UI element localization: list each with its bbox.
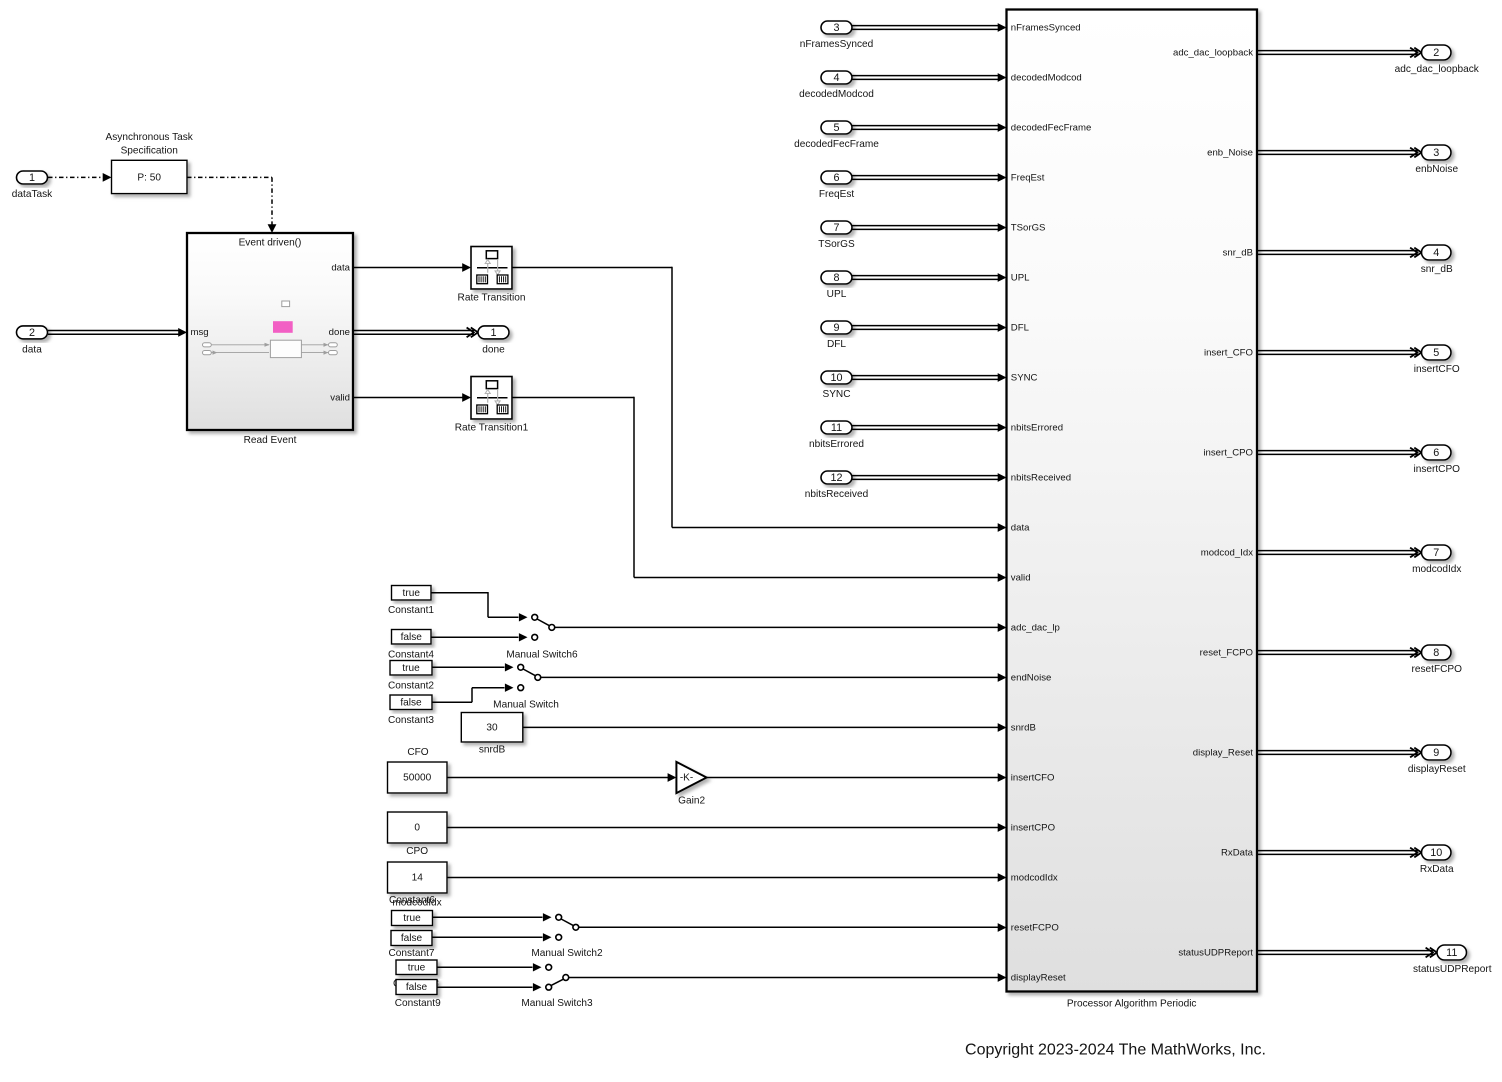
svg-text:done: done (482, 344, 505, 355)
svg-text:enb_Noise: enb_Noise (1207, 147, 1253, 158)
svg-text:3: 3 (1433, 147, 1439, 159)
svg-text:false: false (401, 632, 423, 643)
svg-text:Specification: Specification (121, 146, 178, 157)
svg-text:5: 5 (833, 122, 839, 134)
svg-text:snrdB: snrdB (479, 744, 506, 755)
svg-text:modcodIdx: modcodIdx (1412, 564, 1461, 575)
svg-text:statusUDPReport: statusUDPReport (1413, 964, 1492, 975)
svg-text:1: 1 (490, 327, 496, 339)
svg-text:9: 9 (1433, 747, 1439, 759)
svg-text:P: 50: P: 50 (137, 172, 161, 183)
svg-text:6: 6 (833, 172, 839, 184)
svg-text:4: 4 (833, 72, 839, 84)
svg-text:nFramesSynced: nFramesSynced (1011, 22, 1081, 33)
svg-text:7: 7 (833, 222, 839, 234)
svg-text:adc_dac_loopback: adc_dac_loopback (1173, 47, 1253, 58)
svg-text:insertCFO: insertCFO (1011, 772, 1055, 783)
svg-text:valid: valid (330, 392, 350, 403)
svg-text:nbitsReceived: nbitsReceived (805, 489, 868, 500)
svg-text:dataTask: dataTask (12, 189, 53, 200)
svg-text:Copyright 2023-2024 The MathWo: Copyright 2023-2024 The MathWorks, Inc. (965, 1042, 1266, 1059)
svg-text:Constant2: Constant2 (388, 680, 434, 691)
svg-text:modcod_Idx: modcod_Idx (1201, 547, 1253, 558)
svg-text:statusUDPReport: statusUDPReport (1178, 947, 1253, 958)
svg-text:Processor Algorithm Periodic: Processor Algorithm Periodic (1067, 998, 1197, 1009)
svg-text:data: data (331, 262, 350, 273)
svg-text:Event driven(): Event driven() (239, 237, 302, 248)
svg-text:DFL: DFL (827, 339, 846, 350)
svg-text:Constant4: Constant4 (388, 650, 434, 661)
svg-text:insertCPO: insertCPO (1413, 464, 1460, 475)
svg-text:insert_CFO: insert_CFO (1204, 347, 1253, 358)
svg-text:nbitsErrored: nbitsErrored (809, 439, 864, 450)
svg-text:Constant7: Constant7 (388, 948, 434, 959)
svg-text:done: done (329, 327, 350, 338)
svg-text:Constant1: Constant1 (388, 605, 434, 616)
svg-text:5: 5 (1433, 347, 1439, 359)
svg-text:10: 10 (830, 372, 842, 384)
svg-text:SYNC: SYNC (822, 389, 850, 400)
svg-text:8: 8 (833, 272, 839, 284)
svg-text:Gain2: Gain2 (678, 796, 705, 807)
svg-text:9: 9 (833, 322, 839, 334)
svg-text:Constant9: Constant9 (395, 998, 441, 1009)
svg-text:msg: msg (191, 327, 209, 338)
svg-text:RxData: RxData (1420, 864, 1454, 875)
svg-text:true: true (403, 588, 421, 599)
svg-text:nbitsErrored: nbitsErrored (1011, 422, 1063, 433)
svg-text:decodedFecFrame: decodedFecFrame (794, 139, 879, 150)
svg-text:CFO: CFO (407, 747, 428, 758)
svg-text:Manual Switch3: Manual Switch3 (521, 998, 593, 1009)
svg-text:resetFCPO: resetFCPO (1011, 922, 1059, 933)
svg-text:decodedModcod: decodedModcod (1011, 72, 1082, 83)
svg-text:displayReset: displayReset (1408, 764, 1466, 775)
svg-text:1: 1 (29, 172, 35, 184)
svg-text:modcodIdx: modcodIdx (1011, 872, 1058, 883)
svg-text:0: 0 (414, 822, 420, 833)
svg-text:false: false (401, 933, 423, 944)
svg-text:TSorGS: TSorGS (818, 239, 855, 250)
svg-text:12: 12 (830, 472, 842, 484)
svg-text:UPL: UPL (827, 289, 847, 300)
svg-text:displayReset: displayReset (1011, 972, 1066, 983)
svg-text:data: data (22, 344, 42, 355)
svg-text:SYNC: SYNC (1011, 372, 1038, 383)
svg-text:7: 7 (1433, 547, 1439, 559)
svg-text:decodedFecFrame: decodedFecFrame (1011, 122, 1092, 133)
svg-text:RxData: RxData (1221, 847, 1254, 858)
svg-text:2: 2 (29, 327, 35, 339)
svg-text:valid: valid (1011, 572, 1031, 583)
svg-text:2: 2 (1433, 47, 1439, 59)
svg-text:adc_dac_lp: adc_dac_lp (1011, 622, 1060, 633)
svg-text:snr_dB: snr_dB (1421, 264, 1453, 275)
svg-text:Read Event: Read Event (244, 435, 297, 446)
svg-text:14: 14 (412, 872, 424, 883)
svg-text:CPO: CPO (406, 846, 428, 857)
svg-text:insertCFO: insertCFO (1414, 364, 1460, 375)
svg-text:insertCPO: insertCPO (1011, 822, 1055, 833)
svg-text:Manual Switch6: Manual Switch6 (506, 650, 578, 661)
svg-text:endNoise: endNoise (1011, 672, 1052, 683)
svg-text:Manual Switch: Manual Switch (493, 700, 559, 711)
svg-text:50000: 50000 (403, 772, 431, 783)
svg-text:-K-: -K- (680, 772, 693, 783)
svg-text:insert_CPO: insert_CPO (1203, 447, 1253, 458)
svg-text:TSorGS: TSorGS (1011, 222, 1046, 233)
svg-text:3: 3 (833, 22, 839, 34)
svg-text:true: true (402, 663, 420, 674)
svg-text:resetFCPO: resetFCPO (1412, 664, 1463, 675)
svg-text:FreqEst: FreqEst (819, 189, 855, 200)
svg-text:8: 8 (1433, 647, 1439, 659)
svg-text:snr_dB: snr_dB (1223, 247, 1253, 258)
svg-text:Asynchronous Task: Asynchronous Task (106, 132, 194, 143)
svg-text:DFL: DFL (1011, 322, 1030, 333)
svg-text:30: 30 (486, 722, 498, 733)
svg-text:Rate Transition1: Rate Transition1 (455, 422, 529, 433)
svg-text:display_Reset: display_Reset (1193, 747, 1254, 758)
svg-text:Rate Transition: Rate Transition (458, 292, 526, 303)
svg-text:reset_FCPO: reset_FCPO (1200, 647, 1253, 658)
svg-text:nbitsReceived: nbitsReceived (1011, 472, 1071, 483)
svg-text:data: data (1011, 522, 1030, 533)
svg-text:true: true (403, 913, 421, 924)
svg-text:modcodIdx: modcodIdx (392, 897, 441, 908)
svg-text:adc_dac_loopback: adc_dac_loopback (1395, 64, 1480, 75)
svg-text:decodedModcod: decodedModcod (799, 89, 874, 100)
svg-text:UPL: UPL (1011, 272, 1030, 283)
svg-text:snrdB: snrdB (1011, 722, 1036, 733)
svg-text:11: 11 (831, 422, 842, 434)
svg-text:nFramesSynced: nFramesSynced (800, 39, 874, 50)
svg-text:Manual Switch2: Manual Switch2 (531, 948, 603, 959)
svg-text:enbNoise: enbNoise (1415, 164, 1458, 175)
svg-text:4: 4 (1433, 247, 1439, 259)
svg-text:false: false (400, 697, 422, 708)
svg-text:FreqEst: FreqEst (1011, 172, 1045, 183)
svg-text:11: 11 (1446, 947, 1457, 959)
svg-text:Constant3: Constant3 (388, 715, 434, 726)
svg-text:6: 6 (1433, 447, 1439, 459)
svg-text:true: true (408, 962, 426, 973)
svg-text:10: 10 (1430, 847, 1442, 859)
svg-text:false: false (406, 982, 428, 993)
